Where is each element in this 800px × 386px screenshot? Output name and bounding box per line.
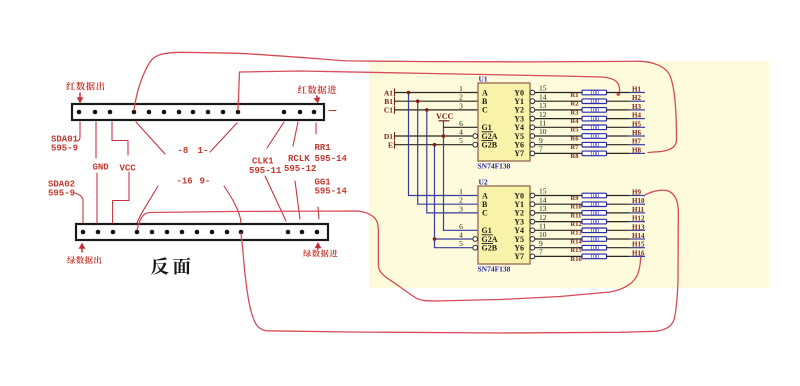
resistor R2 100 bbox=[571, 99, 607, 108]
svg-text:H9: H9 bbox=[632, 189, 641, 197]
svg-text:R5: R5 bbox=[571, 127, 580, 134]
resistor R13 100 bbox=[571, 228, 607, 237]
wire GND to bottom bar bbox=[96, 173, 98, 223]
svg-text:H4: H4 bbox=[632, 112, 641, 120]
wire Y5 output pin 10 bbox=[530, 230, 583, 241]
wire fan -16 left bbox=[137, 186, 158, 223]
svg-text:G2A: G2A bbox=[482, 132, 498, 141]
op-amp-style decoder IC U1 SN74F138 bbox=[459, 75, 530, 171]
arrow red-data-out bbox=[77, 93, 84, 104]
svg-text:H1: H1 bbox=[632, 86, 641, 94]
svg-text:Y7: Y7 bbox=[514, 252, 524, 261]
wire Y1 output pin 14 bbox=[530, 195, 583, 206]
label green-data-in bbox=[303, 249, 337, 257]
label red-data-in bbox=[298, 85, 337, 94]
svg-text:Y6: Y6 bbox=[514, 244, 524, 253]
node H5 bbox=[606, 120, 645, 128]
power VCC bbox=[436, 112, 454, 121]
svg-text:R9: R9 bbox=[571, 195, 580, 202]
node H15 bbox=[606, 241, 645, 249]
svg-text:-8: -8 bbox=[178, 146, 189, 156]
junction D1 bbox=[442, 134, 446, 138]
wire tick right of top bar bbox=[329, 110, 336, 112]
node H10 bbox=[606, 197, 645, 205]
svg-text:H15: H15 bbox=[632, 241, 645, 249]
wire green-out loop to H9 bbox=[241, 190, 678, 333]
label red-data-out bbox=[66, 82, 104, 91]
svg-text:A: A bbox=[482, 88, 488, 97]
wire GND top stub bbox=[95, 122, 97, 158]
svg-text:-16: -16 bbox=[177, 177, 193, 187]
resistor R7 100 bbox=[571, 142, 607, 151]
svg-text:Y2: Y2 bbox=[514, 106, 524, 115]
svg-text:100: 100 bbox=[590, 117, 599, 123]
wire green-in loop to H16 bbox=[137, 211, 641, 301]
svg-text:Y1: Y1 bbox=[514, 97, 524, 106]
svg-text:G2A: G2A bbox=[482, 235, 498, 244]
svg-text:B1: B1 bbox=[384, 97, 393, 106]
svg-text:12: 12 bbox=[539, 213, 547, 222]
node H2 bbox=[606, 94, 645, 102]
svg-text:15: 15 bbox=[539, 187, 547, 196]
svg-text:100: 100 bbox=[590, 143, 599, 149]
svg-text:G2B: G2B bbox=[482, 244, 498, 253]
wire GG1 to bottom pin14 bbox=[318, 207, 319, 219]
node H14 bbox=[606, 232, 645, 240]
svg-text:595-9: 595-9 bbox=[51, 144, 78, 154]
svg-text:U1: U1 bbox=[479, 75, 488, 84]
svg-text:9-: 9- bbox=[200, 177, 211, 187]
resistor R8 100 bbox=[571, 151, 607, 160]
wire Y7 output pin 7 bbox=[530, 145, 583, 156]
svg-text:D1: D1 bbox=[384, 132, 393, 141]
svg-text:15: 15 bbox=[539, 84, 547, 93]
node H7 bbox=[606, 138, 645, 146]
svg-text:Y6: Y6 bbox=[514, 141, 524, 150]
wire Y4 output pin 11 bbox=[530, 119, 583, 130]
svg-text:U2: U2 bbox=[479, 178, 488, 187]
wire Y2 output pin 13 bbox=[530, 101, 583, 112]
node H1 bbox=[606, 86, 645, 94]
svg-text:Y3: Y3 bbox=[514, 114, 524, 123]
resistor R6 100 bbox=[571, 134, 607, 143]
wire RR1 leader bbox=[315, 123, 317, 134]
svg-text:100: 100 bbox=[590, 254, 599, 260]
svg-text:12: 12 bbox=[539, 110, 547, 119]
svg-text:R12: R12 bbox=[571, 221, 582, 228]
wire Y1 output pin 14 bbox=[530, 92, 583, 103]
node B1 bbox=[384, 97, 478, 106]
wire CLK1 leader bbox=[267, 122, 284, 148]
svg-text:R11: R11 bbox=[571, 212, 582, 219]
svg-text:1-: 1- bbox=[198, 146, 209, 156]
svg-text:4: 4 bbox=[459, 231, 463, 240]
label green-data-out bbox=[67, 256, 101, 264]
svg-text:10: 10 bbox=[539, 127, 547, 136]
svg-text:100: 100 bbox=[590, 91, 599, 97]
svg-text:Y5: Y5 bbox=[514, 235, 524, 244]
wire red-in wire to H1 bbox=[238, 71, 620, 110]
svg-text:100: 100 bbox=[590, 220, 599, 226]
svg-text:595-9: 595-9 bbox=[48, 189, 75, 199]
op-amp-style decoder IC U2 SN74F138 bbox=[459, 178, 530, 274]
svg-text:RCLK: RCLK bbox=[288, 154, 310, 164]
wire fan -8 left bbox=[136, 122, 165, 154]
wire VCC to G1 pins bbox=[444, 121, 479, 231]
svg-text:1: 1 bbox=[459, 84, 463, 93]
wire A1 to U2 bbox=[409, 93, 479, 196]
svg-text:R16: R16 bbox=[571, 256, 583, 263]
svg-text:100: 100 bbox=[590, 194, 599, 200]
svg-text:R2: R2 bbox=[571, 101, 579, 108]
svg-text:R15: R15 bbox=[571, 247, 583, 254]
wire fan 9- right bbox=[224, 186, 241, 223]
svg-text:13: 13 bbox=[539, 204, 547, 213]
node H6 bbox=[606, 129, 645, 137]
svg-text:B: B bbox=[482, 97, 488, 106]
svg-text:H12: H12 bbox=[632, 215, 645, 223]
resistor R3 100 bbox=[571, 108, 607, 117]
wire Y5 output pin 10 bbox=[530, 127, 583, 138]
svg-text:100: 100 bbox=[590, 99, 599, 105]
arrow green-data-in bbox=[315, 242, 322, 250]
resistor R14 100 bbox=[571, 237, 607, 246]
svg-text:100: 100 bbox=[590, 228, 599, 234]
svg-text:2: 2 bbox=[459, 196, 463, 205]
wire RCLK leader bbox=[293, 122, 298, 146]
connector J2 bottom bar bbox=[76, 224, 328, 240]
svg-text:Y0: Y0 bbox=[514, 88, 524, 97]
svg-text:11: 11 bbox=[539, 222, 546, 231]
wire Y7 output pin 7 bbox=[530, 248, 583, 259]
node H9 bbox=[606, 189, 645, 197]
svg-text:R1: R1 bbox=[571, 92, 579, 99]
node A1 bbox=[384, 88, 478, 97]
arrow green-data-out bbox=[79, 243, 86, 253]
svg-text:R4: R4 bbox=[571, 118, 580, 125]
junction red-in end dot bbox=[617, 93, 620, 96]
resistor R10 100 bbox=[571, 202, 607, 211]
svg-text:H3: H3 bbox=[632, 103, 641, 111]
wire RCLK to bottom pin13 bbox=[295, 181, 300, 219]
node H16 bbox=[606, 249, 645, 257]
junction G2A-U2 bbox=[433, 237, 437, 241]
svg-text:A: A bbox=[482, 191, 488, 200]
svg-text:C1: C1 bbox=[384, 106, 393, 115]
wire CLK1 to bottom pin12 bbox=[265, 176, 286, 221]
resistor R11 100 bbox=[571, 211, 607, 220]
svg-text:100: 100 bbox=[590, 211, 599, 217]
svg-text:595-11: 595-11 bbox=[249, 166, 282, 176]
wire Y4 output pin 11 bbox=[530, 222, 583, 233]
svg-text:7: 7 bbox=[539, 248, 543, 257]
node H4 bbox=[606, 112, 645, 120]
svg-text:H13: H13 bbox=[632, 223, 645, 231]
svg-text:6: 6 bbox=[459, 119, 463, 128]
svg-text:11: 11 bbox=[539, 119, 546, 128]
svg-text:Y2: Y2 bbox=[514, 209, 524, 218]
wire SDA01 to pin1 bbox=[76, 122, 81, 141]
resistor R1 100 bbox=[571, 90, 607, 99]
svg-text:Y3: Y3 bbox=[514, 217, 524, 226]
resistor R12 100 bbox=[571, 219, 607, 228]
svg-text:C: C bbox=[482, 106, 488, 115]
svg-text:SN74F138: SN74F138 bbox=[478, 265, 511, 274]
svg-text:Y5: Y5 bbox=[514, 132, 524, 141]
wire Y0 output pin 15 bbox=[530, 84, 583, 95]
node H8 bbox=[606, 146, 645, 154]
svg-text:VCC: VCC bbox=[436, 112, 454, 121]
svg-text:100: 100 bbox=[590, 246, 599, 252]
svg-text:6: 6 bbox=[459, 222, 463, 231]
svg-text:GND: GND bbox=[93, 163, 110, 173]
resistor R5 100 bbox=[571, 125, 607, 134]
svg-text:G1: G1 bbox=[482, 226, 492, 235]
junction A1 bbox=[407, 91, 411, 95]
svg-text:3: 3 bbox=[459, 204, 463, 213]
wire Y0 output pin 15 bbox=[530, 187, 583, 198]
svg-text:R8: R8 bbox=[571, 153, 580, 160]
svg-text:R13: R13 bbox=[571, 230, 583, 237]
label back-side bbox=[151, 257, 190, 274]
svg-text:VCC: VCC bbox=[120, 164, 137, 174]
connector J1 top bar bbox=[72, 104, 324, 120]
wire Y3 output pin 12 bbox=[530, 110, 583, 121]
svg-text:SN74F138: SN74F138 bbox=[478, 162, 511, 171]
svg-text:H7: H7 bbox=[632, 138, 641, 146]
wire SDA02 to bottom pin1 bbox=[75, 193, 83, 223]
junction E bbox=[433, 143, 437, 147]
junction B1 bbox=[416, 99, 420, 103]
svg-text:10: 10 bbox=[539, 230, 547, 239]
wire Y6 output pin 9 bbox=[530, 239, 583, 250]
svg-text:14: 14 bbox=[539, 195, 547, 204]
node D1 bbox=[384, 132, 472, 141]
svg-text:H11: H11 bbox=[632, 206, 645, 214]
resistor R15 100 bbox=[571, 245, 607, 254]
svg-text:595-14: 595-14 bbox=[315, 154, 348, 164]
junction C1 bbox=[425, 108, 429, 112]
svg-text:13: 13 bbox=[539, 101, 547, 110]
svg-text:100: 100 bbox=[590, 125, 599, 131]
svg-text:CLK1: CLK1 bbox=[252, 157, 274, 167]
arrow red-data-in bbox=[314, 96, 321, 104]
svg-text:100: 100 bbox=[590, 108, 599, 114]
svg-text:100: 100 bbox=[590, 151, 599, 157]
wire red-out loop to H8 bbox=[134, 52, 677, 152]
wire fan 1- right bbox=[210, 123, 237, 152]
svg-text:Y1: Y1 bbox=[514, 200, 524, 209]
wire C1 to U2 bbox=[427, 110, 478, 213]
svg-text:4: 4 bbox=[459, 128, 463, 137]
svg-text:9: 9 bbox=[539, 239, 543, 248]
wire Y3 output pin 12 bbox=[530, 213, 583, 224]
svg-text:100: 100 bbox=[590, 237, 599, 243]
wire E to U2 G2A and G2B bbox=[435, 145, 473, 248]
svg-text:A1: A1 bbox=[384, 88, 393, 97]
svg-text:Y7: Y7 bbox=[514, 149, 524, 158]
svg-text:R14: R14 bbox=[571, 238, 583, 245]
svg-text:5: 5 bbox=[459, 136, 463, 145]
svg-text:B: B bbox=[482, 200, 488, 209]
node E bbox=[388, 141, 472, 150]
svg-text:G2B: G2B bbox=[482, 141, 498, 150]
svg-text:G1: G1 bbox=[482, 123, 492, 132]
svg-text:595-14: 595-14 bbox=[315, 187, 348, 197]
node C1 bbox=[384, 106, 478, 115]
svg-text:H2: H2 bbox=[632, 94, 641, 102]
svg-text:7: 7 bbox=[539, 145, 543, 154]
svg-text:H6: H6 bbox=[632, 129, 641, 137]
svg-text:100: 100 bbox=[590, 134, 599, 140]
svg-text:Y0: Y0 bbox=[514, 191, 524, 200]
svg-text:H5: H5 bbox=[632, 120, 641, 128]
svg-text:2: 2 bbox=[459, 93, 463, 102]
svg-text:3: 3 bbox=[459, 101, 463, 110]
schematic sheet background bbox=[369, 61, 769, 288]
svg-text:Y4: Y4 bbox=[514, 123, 524, 132]
resistor R16 100 bbox=[571, 254, 607, 263]
svg-text:H16: H16 bbox=[632, 249, 645, 257]
svg-text:Y4: Y4 bbox=[514, 226, 524, 235]
svg-text:H10: H10 bbox=[632, 197, 645, 205]
svg-text:5: 5 bbox=[459, 239, 463, 248]
node H13 bbox=[606, 223, 645, 231]
node H12 bbox=[606, 215, 645, 223]
svg-text:H8: H8 bbox=[632, 146, 641, 154]
wire VCC bottom jog bbox=[113, 172, 129, 223]
node H11 bbox=[606, 206, 645, 214]
wire VCC top jog bbox=[112, 122, 128, 155]
svg-text:E: E bbox=[388, 141, 393, 150]
node H3 bbox=[606, 103, 645, 111]
wire Y6 output pin 9 bbox=[530, 136, 583, 147]
svg-text:9: 9 bbox=[539, 136, 543, 145]
svg-text:R7: R7 bbox=[571, 144, 580, 151]
svg-text:100: 100 bbox=[590, 202, 599, 208]
svg-text:1: 1 bbox=[459, 187, 463, 196]
resistor R9 100 bbox=[571, 193, 607, 202]
svg-text:H14: H14 bbox=[632, 232, 645, 240]
wire B1 to U2 bbox=[418, 101, 478, 204]
svg-text:RR1: RR1 bbox=[315, 143, 332, 153]
svg-text:C: C bbox=[482, 209, 488, 218]
svg-text:R10: R10 bbox=[571, 204, 582, 211]
resistor R4 100 bbox=[571, 116, 607, 125]
svg-text:595-12: 595-12 bbox=[284, 164, 316, 174]
wire Y2 output pin 13 bbox=[530, 204, 583, 215]
svg-text:14: 14 bbox=[539, 92, 547, 101]
svg-text:R3: R3 bbox=[571, 109, 580, 116]
svg-text:R6: R6 bbox=[571, 135, 580, 142]
